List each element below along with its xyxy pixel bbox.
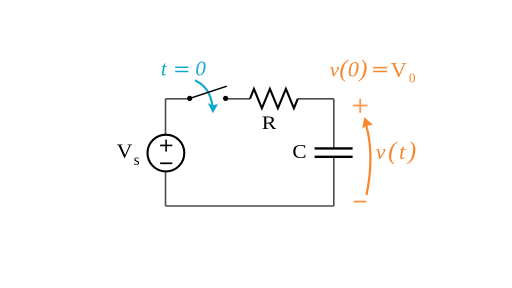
wire bottom (166, 205, 334, 207)
wire left vertical upper (165, 99, 167, 135)
wire top-left segment (166, 98, 189, 100)
annotation v(0) = V0 (orange) (330, 56, 416, 86)
svg-text:R: R (262, 113, 277, 134)
resistor R (250, 89, 298, 108)
svg-text:V: V (117, 141, 133, 163)
svg-text:C: C (292, 141, 306, 163)
capacitor C (315, 148, 353, 156)
wire right vertical lower (333, 158, 335, 206)
voltage source Vs (148, 135, 185, 172)
polarity minus (orange) (354, 201, 367, 203)
polarity plus (orange) (353, 99, 368, 113)
svg-text:0: 0 (409, 70, 416, 85)
svg-text:v(0): v(0) (330, 56, 368, 83)
svg-text:t: t (161, 57, 168, 81)
label t = 0 (161, 57, 207, 81)
arrow v(t) (orange) (362, 117, 373, 195)
switch SW1 right terminal dot (223, 96, 228, 101)
svg-text:s: s (134, 152, 140, 169)
svg-text:V: V (391, 58, 407, 82)
svg-text:v(t): v(t) (376, 138, 419, 165)
switch SW1 left terminal dot (187, 96, 192, 101)
switch SW1 closing arrow (blue) (195, 81, 218, 114)
wire right vertical upper (333, 99, 335, 148)
wire switch to resistor (226, 98, 250, 100)
switch SW1 arm (190, 86, 227, 98)
wire left vertical lower (165, 172, 167, 206)
wire resistor to corner (298, 98, 334, 100)
svg-text:0: 0 (195, 57, 206, 81)
